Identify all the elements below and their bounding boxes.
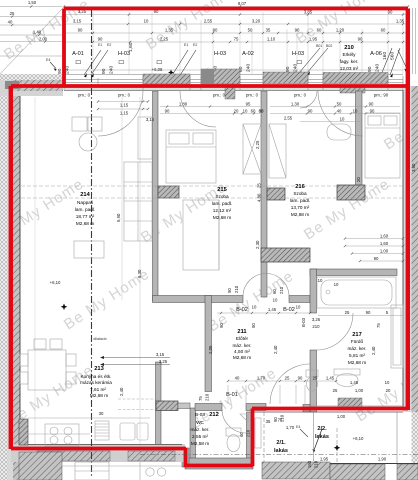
svg-text:2,30: 2,30 <box>255 240 260 249</box>
svg-text:20: 20 <box>356 177 361 182</box>
svg-text:90: 90 <box>78 28 83 33</box>
svg-text:1,15: 1,15 <box>120 103 129 108</box>
svg-text:213: 213 <box>94 366 104 372</box>
room label 213 Konyha <box>80 366 112 398</box>
svg-text:50: 50 <box>337 102 342 107</box>
svg-text:lam. padl.: lam. padl. <box>75 207 95 212</box>
svg-text:1,60: 1,60 <box>380 234 389 239</box>
door arc balcony 214 <box>98 91 143 136</box>
svg-text:10: 10 <box>318 278 323 283</box>
svg-text:2,40: 2,40 <box>273 345 278 354</box>
svg-text:90: 90 <box>295 28 300 33</box>
washbasin bath <box>334 369 360 375</box>
door arc entrance B-01 <box>270 364 310 404</box>
svg-text:2,05: 2,05 <box>208 345 213 354</box>
kitchen bottom wall <box>11 444 185 462</box>
svg-text:210: 210 <box>234 285 239 293</box>
svg-text:210: 210 <box>314 460 319 468</box>
door arc room216 to eloter B-02 <box>266 274 289 297</box>
svg-text:Erkély: Erkély <box>342 52 356 57</box>
svg-text:75: 75 <box>198 396 203 401</box>
svg-text:1,40: 1,40 <box>33 30 42 35</box>
neighbour fixtures bottom-right <box>255 418 261 448</box>
svg-text:90: 90 <box>98 37 103 42</box>
entrance wall segments <box>195 404 222 411</box>
low table nappali <box>74 241 104 258</box>
top-left corner ticks <box>11 5 46 42</box>
svg-text:20: 20 <box>386 388 391 393</box>
svg-text:160: 160 <box>382 52 388 60</box>
right exterior wall <box>403 86 418 412</box>
balcony side wall right thin lines <box>413 8 416 74</box>
svg-text:90: 90 <box>369 102 374 107</box>
svg-text:240: 240 <box>109 66 115 74</box>
svg-text:12,03 m²: 12,03 m² <box>340 66 359 71</box>
bed room 215 <box>166 130 216 183</box>
svg-text:lakás: lakás <box>274 448 288 454</box>
svg-text:1,00: 1,00 <box>337 414 346 419</box>
top-left corner dimension block <box>0 7 62 75</box>
rotated interior dims <box>116 140 416 468</box>
svg-text:1,20: 1,20 <box>336 28 345 33</box>
svg-text:2/1.: 2/1. <box>276 440 286 446</box>
svg-text:7,61 m²: 7,61 m² <box>90 387 106 392</box>
svg-text:B-02: B-02 <box>236 307 248 313</box>
svg-text:90: 90 <box>219 323 224 328</box>
svg-text:217: 217 <box>352 332 362 338</box>
interior wall 215/216 <box>261 91 267 297</box>
kitchen dim leader arrows <box>102 358 170 365</box>
wardrobe room 216 left <box>269 124 286 178</box>
svg-text:25: 25 <box>313 376 318 381</box>
crib room 216 <box>327 124 351 140</box>
svg-text:5,81 m²: 5,81 m² <box>349 353 365 358</box>
dining table <box>28 350 66 390</box>
svg-text:1,45: 1,45 <box>350 380 359 385</box>
svg-text:A-01: A-01 <box>72 51 84 57</box>
svg-text:25: 25 <box>257 183 262 188</box>
svg-text:30: 30 <box>99 411 104 416</box>
WC bottom wall <box>185 458 253 469</box>
armchairs nappali <box>72 117 87 131</box>
wall pier top-left dark <box>5 81 19 89</box>
svg-text:2/2.: 2/2. <box>317 426 327 432</box>
svg-text:M2,68 m: M2,68 m <box>213 215 231 220</box>
svg-text:210: 210 <box>246 429 251 437</box>
pier on wall 214/215 <box>158 186 179 198</box>
neighbour kitchen bottom-left <box>75 462 109 480</box>
svg-text:M2,68 m: M2,68 m <box>348 360 366 365</box>
svg-text:fagy. ker.: fagy. ker. <box>340 59 359 64</box>
svg-text:1,45: 1,45 <box>268 307 277 312</box>
pier on kitchen peninsula wall <box>156 401 178 411</box>
svg-text:E1: E1 <box>98 43 102 47</box>
svg-text:Nappali: Nappali <box>77 200 93 205</box>
svg-text:Fürdő: Fürdő <box>351 339 364 344</box>
svg-text:3,15: 3,15 <box>156 352 165 357</box>
pier at alcove divider bottom <box>337 185 365 200</box>
pier below red line (room side) <box>225 86 235 99</box>
svg-text:50: 50 <box>248 28 253 33</box>
window jamb dividers <box>64 76 403 90</box>
room label 211 Eloter <box>232 329 251 360</box>
top dimension rows over balcony <box>64 7 408 71</box>
door arc balcony 215 <box>180 91 216 127</box>
svg-text:5,90: 5,90 <box>116 213 121 222</box>
ceiling dashed lines across rooms <box>21 186 403 198</box>
svg-text:90: 90 <box>358 37 363 42</box>
bath left wall <box>310 269 317 313</box>
svg-text:Szoba: Szoba <box>293 191 307 196</box>
svg-text:240: 240 <box>375 64 381 72</box>
svg-text:35: 35 <box>266 419 271 424</box>
svg-text:pm.: 0: pm.: 0 <box>78 93 91 98</box>
svg-text:90: 90 <box>298 376 303 381</box>
svg-text:60: 60 <box>381 28 386 33</box>
svg-text:pm.: 0: pm.: 0 <box>246 93 259 98</box>
svg-text:mázas kerámia: mázas kerámia <box>80 380 112 385</box>
wall 216 alcove divider <box>356 91 363 191</box>
svg-text:+6,08: +6,08 <box>152 67 163 72</box>
entry arrow <box>314 429 322 450</box>
svg-text:4,80: 4,80 <box>257 193 262 202</box>
svg-text:35: 35 <box>266 28 271 33</box>
svg-text:3,20: 3,20 <box>252 19 261 24</box>
svg-text:90: 90 <box>367 66 373 72</box>
svg-text:1,70: 1,70 <box>286 425 295 430</box>
wall below room215 (horizontal) <box>153 296 244 303</box>
sill marker squares <box>76 61 302 64</box>
WC/kitchen separator wall <box>182 448 189 467</box>
svg-text:máz. ker.: máz. ker. <box>190 427 209 432</box>
svg-text:E2: E2 <box>107 43 111 47</box>
svg-text:B02: B02 <box>326 44 332 48</box>
svg-text:pm.: 0: pm.: 0 <box>213 93 226 98</box>
svg-text:+6,10: +6,10 <box>50 280 61 285</box>
svg-text:210: 210 <box>205 393 210 401</box>
svg-text:90: 90 <box>227 288 232 293</box>
svg-text:1,45: 1,45 <box>326 376 335 381</box>
left exterior wall <box>0 96 20 480</box>
svg-text:H-03: H-03 <box>292 51 304 57</box>
svg-text:90: 90 <box>366 310 371 315</box>
svg-text:10: 10 <box>273 298 278 303</box>
WC right wall <box>247 412 254 467</box>
svg-text:10: 10 <box>243 109 248 114</box>
svg-text:E4: E4 <box>46 58 50 62</box>
svg-text:2,00: 2,00 <box>39 37 48 42</box>
svg-text:240: 240 <box>246 64 252 72</box>
svg-text:1,60: 1,60 <box>128 42 134 52</box>
dimension ticks rows <box>63 5 409 43</box>
svg-text:12,12 m²: 12,12 m² <box>213 208 232 213</box>
svg-text:95: 95 <box>246 102 251 107</box>
svg-text:90: 90 <box>101 68 107 74</box>
svg-text:H-03: H-03 <box>214 51 226 57</box>
svg-text:10: 10 <box>252 305 257 310</box>
svg-text:25: 25 <box>333 388 338 393</box>
svg-text:1,10: 1,10 <box>267 37 276 42</box>
svg-text:lam. padl.: lam. padl. <box>212 201 232 206</box>
WC left wall <box>190 408 196 460</box>
svg-text:2,25: 2,25 <box>160 37 169 42</box>
svg-text:10: 10 <box>385 380 390 385</box>
bath top wall <box>310 269 397 276</box>
svg-text:160: 160 <box>307 460 312 468</box>
svg-text:1,50: 1,50 <box>28 0 37 5</box>
svg-text:B-03: B-03 <box>301 317 306 327</box>
section cut line (dash-dot vertical) <box>91 10 93 478</box>
svg-text:M2,68 m: M2,68 m <box>291 212 309 217</box>
kitchen corner pier <box>19 419 28 445</box>
svg-text:2,55: 2,55 <box>284 116 293 121</box>
svg-text:10: 10 <box>353 109 358 114</box>
room label 217 Furdo <box>347 332 366 365</box>
basin WC corner <box>240 414 248 422</box>
svg-text:1,95: 1,95 <box>309 37 318 42</box>
svg-text:216: 216 <box>295 184 305 190</box>
coffee table <box>79 133 97 151</box>
svg-text:25: 25 <box>345 310 350 315</box>
sofa wall unit nappali <box>124 162 152 241</box>
svg-text:75: 75 <box>376 323 381 328</box>
neighbour wall band bottom-right <box>330 464 385 480</box>
toilet WC <box>226 428 241 436</box>
svg-text:4,50 m²: 4,50 m² <box>234 349 250 354</box>
door arc room215 to eloter B-02 <box>243 274 266 297</box>
svg-text:1,95: 1,95 <box>320 457 329 462</box>
wall stub to WC <box>178 403 190 409</box>
door arc balcony alcove A-06 <box>318 91 363 136</box>
svg-text:25: 25 <box>285 376 290 381</box>
towel radiator bath <box>391 305 403 368</box>
dim extension line x140 <box>139 97 141 444</box>
svg-text:3,60: 3,60 <box>411 163 416 172</box>
svg-text:40: 40 <box>337 109 342 114</box>
corridor wall edge lines below entrance <box>314 412 398 463</box>
wall kitchen peninsula <box>156 362 162 445</box>
bottom wall right of entrance (double lines) <box>310 406 403 410</box>
reference line x35 <box>34 97 36 444</box>
svg-text:máz. ker.: máz. ker. <box>347 346 366 351</box>
svg-text:90: 90 <box>374 256 379 261</box>
svg-text:75: 75 <box>278 418 283 423</box>
svg-text:máz. ker.: máz. ker. <box>232 343 251 348</box>
dashed line bottom corridor <box>140 454 418 456</box>
vertical extension lines in balcony <box>64 10 403 74</box>
svg-text:E4: E4 <box>296 425 300 429</box>
door arc bath B-03 <box>316 313 353 350</box>
door arc balcony 216 small <box>300 91 317 108</box>
top facade wall band <box>64 74 403 76</box>
svg-text:M2,58 m: M2,58 m <box>191 441 209 446</box>
svg-text:Konyha és étk.: Konyha és étk. <box>80 374 111 379</box>
svg-text:560: 560 <box>390 52 396 60</box>
room label 212 WC <box>190 412 218 446</box>
svg-text:240: 240 <box>293 64 299 72</box>
svg-text:211: 211 <box>237 329 246 335</box>
svg-text:214: 214 <box>80 192 90 198</box>
svg-text:2,25: 2,25 <box>255 140 260 149</box>
svg-text:A-06: A-06 <box>370 51 382 57</box>
rotated 90/240 window dims <box>57 42 396 74</box>
svg-text:90: 90 <box>285 66 291 72</box>
svg-text:10: 10 <box>334 282 339 287</box>
wardrobe room 215 <box>243 124 261 174</box>
svg-text:1,15: 1,15 <box>120 111 129 116</box>
svg-text:210: 210 <box>312 324 320 329</box>
svg-text:1,35: 1,35 <box>165 28 174 33</box>
entrance wall window pier <box>338 398 362 410</box>
svg-text:25: 25 <box>10 11 15 16</box>
svg-text:A-02: A-02 <box>242 51 254 57</box>
svg-text:+6,10: +6,10 <box>353 436 364 441</box>
svg-text:pm.: 0: pm.: 0 <box>294 93 307 98</box>
svg-text:pm.: 0: pm.: 0 <box>118 93 131 98</box>
svg-text:B-02: B-02 <box>283 307 295 313</box>
svg-text:3,25: 3,25 <box>159 359 168 364</box>
svg-text:212: 212 <box>209 412 219 418</box>
svg-text:10: 10 <box>340 117 345 122</box>
toilet bath <box>306 370 318 377</box>
kitchen counter <box>28 418 150 434</box>
neighbour wall block bottom-left <box>19 452 62 480</box>
svg-text:2,55 m²: 2,55 m² <box>192 434 208 439</box>
svg-text:3,26: 3,26 <box>312 317 321 322</box>
wall 216 bottom (hatched chunk) <box>261 248 310 262</box>
svg-text:Szoba: Szoba <box>215 194 229 199</box>
svg-text:90: 90 <box>213 28 218 33</box>
svg-text:1,00: 1,00 <box>355 388 364 393</box>
svg-text:210: 210 <box>344 45 354 51</box>
svg-text:215: 215 <box>217 187 227 193</box>
svg-text:2,40: 2,40 <box>119 387 124 396</box>
svg-text:90: 90 <box>251 323 256 328</box>
pier on wall 215/216 <box>267 188 285 200</box>
svg-text:M2,68 m: M2,68 m <box>233 355 251 360</box>
svg-text:1,35: 1,35 <box>396 19 405 24</box>
svg-text:2,40: 2,40 <box>371 346 376 355</box>
room label 216 Szoba <box>290 184 310 217</box>
dims right side vertical chain <box>345 239 403 262</box>
svg-text:60: 60 <box>259 109 264 114</box>
svg-text:60: 60 <box>317 28 322 33</box>
svg-text:8,07: 8,07 <box>238 1 247 6</box>
svg-text:1,30: 1,30 <box>291 102 300 107</box>
wall kitchen/eloter vertical <box>205 296 212 392</box>
dims above entrance wall <box>228 381 336 404</box>
svg-text:1,70: 1,70 <box>257 376 266 381</box>
svg-text:E2: E2 <box>193 43 197 47</box>
svg-text:8,30: 8,30 <box>137 269 142 278</box>
svg-text:1,60: 1,60 <box>380 241 389 246</box>
svg-text:40: 40 <box>235 376 240 381</box>
svg-text:M2,68 m: M2,68 m <box>90 393 108 398</box>
svg-text:75: 75 <box>234 37 239 42</box>
svg-text:2,55: 2,55 <box>204 19 213 24</box>
svg-text:20: 20 <box>234 109 239 114</box>
svg-text:3,15: 3,15 <box>73 19 82 24</box>
svg-text:90: 90 <box>165 109 170 114</box>
svg-text:1,90: 1,90 <box>378 457 387 462</box>
svg-text:210: 210 <box>279 286 284 294</box>
room label 214 Nappali <box>75 192 95 226</box>
svg-text:B-03: B-03 <box>195 412 205 417</box>
svg-text:WC: WC <box>196 420 204 425</box>
dims eloter top row <box>217 312 310 314</box>
neighbour wall band bottom-middle <box>262 462 330 479</box>
tv bench <box>138 117 152 159</box>
leader arrows to windows <box>84 48 407 77</box>
dim extension line x122 <box>121 97 123 300</box>
interior wall 214/215 <box>153 91 159 301</box>
svg-text:1,00: 1,00 <box>380 249 389 254</box>
room label 215 Szoba <box>212 187 232 220</box>
svg-text:dilatáció: dilatáció <box>93 337 106 341</box>
svg-text:40: 40 <box>8 20 13 25</box>
interior dimension row under windows <box>98 102 400 122</box>
svg-text:60: 60 <box>251 109 256 114</box>
svg-text:3,15: 3,15 <box>146 117 155 122</box>
furniture group <box>20 113 403 480</box>
svg-text:M2,68 m: M2,68 m <box>76 221 94 226</box>
svg-text:10: 10 <box>144 19 149 24</box>
bed alcove 216 <box>365 113 400 178</box>
top-left corner wall block <box>0 74 63 96</box>
svg-text:13,70 m²: 13,70 m² <box>291 205 310 210</box>
svg-text:lakás: lakás <box>315 434 329 440</box>
svg-text:pm.: 90: pm.: 90 <box>374 93 389 98</box>
svg-text:E1: E1 <box>184 43 188 47</box>
desk room 215 <box>183 200 219 270</box>
svg-text:18,77 m²: 18,77 m² <box>76 214 95 219</box>
svg-text:60: 60 <box>272 289 277 294</box>
svg-text:10: 10 <box>296 305 301 310</box>
bathtub <box>317 277 396 308</box>
svg-text:lam. padl.: lam. padl. <box>290 198 310 203</box>
top wall piers (hatched) <box>143 74 190 84</box>
svg-text:Előtér: Előtér <box>236 336 249 341</box>
door arc WC <box>222 409 246 433</box>
svg-text:B01: B01 <box>316 44 322 48</box>
svg-text:90: 90 <box>308 109 313 114</box>
